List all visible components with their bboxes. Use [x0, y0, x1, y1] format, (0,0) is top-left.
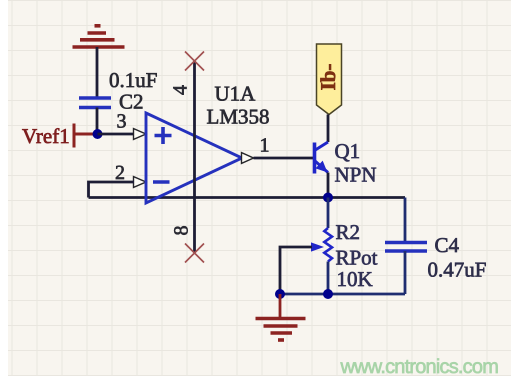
svg-text:0.1uF: 0.1uF [109, 68, 157, 92]
op-amp plus input [155, 127, 172, 144]
transistor Q1 [315, 142, 329, 174]
svg-text:www.cntronics.com: www.cntronics.com [340, 356, 499, 378]
wire C2 to node [96, 108, 99, 135]
output pin arrow [242, 153, 254, 164]
pin 2 arrow [134, 177, 147, 188]
node junction bottom R2 [323, 289, 333, 299]
power port Ib- flag [317, 44, 342, 115]
svg-text:C4: C4 [435, 233, 460, 257]
wire ground to C2 [96, 47, 99, 98]
svg-text:NPN: NPN [335, 163, 377, 187]
wire pin 1 to base [254, 157, 315, 160]
wiper arrow [311, 242, 324, 251]
no-connect X pin 4 [185, 52, 204, 71]
wire C4 top stem [404, 198, 407, 243]
port Vref1 tick [73, 124, 76, 148]
wire Vref1 (red) [74, 133, 97, 136]
svg-text:10K: 10K [337, 267, 373, 291]
capacitor C4 [385, 243, 427, 252]
op-amp minus input [153, 180, 170, 184]
node junction bottom left [275, 289, 285, 299]
no-connect X pin 8 [185, 244, 204, 263]
svg-text:1: 1 [260, 135, 270, 157]
svg-text:RPot: RPot [336, 246, 378, 270]
wire node to pin 3 [98, 133, 135, 136]
node junction at emitter [323, 193, 333, 203]
svg-text:LM358: LM358 [207, 105, 270, 129]
svg-text:Q1: Q1 [335, 139, 361, 163]
svg-text:U1A: U1A [215, 82, 257, 106]
op-amp U1A triangle [146, 113, 242, 203]
wire pin 2 loop [89, 182, 135, 198]
wire C4 bottom stem [404, 251, 407, 294]
svg-text:3: 3 [117, 111, 127, 133]
wire emitter down [327, 173, 330, 198]
wire bottom rail [280, 293, 405, 296]
wire flag to collector [327, 115, 330, 143]
potentiometer R2 zigzag [324, 228, 332, 262]
wire wiper [280, 247, 312, 294]
svg-text:8: 8 [171, 226, 193, 236]
svg-text:0.47uF: 0.47uF [428, 258, 487, 282]
transistor emitter arrow [316, 162, 326, 172]
svg-text:Vref1: Vref1 [22, 124, 70, 148]
svg-text:R2: R2 [336, 220, 361, 244]
node junction at C2/Vref1 [93, 129, 103, 139]
pin 3 arrow [134, 129, 147, 140]
ground (bottom earth symbol) [256, 319, 306, 341]
capacitor C2 [79, 98, 111, 108]
svg-text:4: 4 [170, 85, 192, 95]
wire node to R2 [327, 198, 330, 229]
wire to ground [279, 294, 282, 319]
wire R2 bottom [327, 262, 330, 295]
ground (top earth symbol) [73, 26, 125, 47]
svg-text:Ib-: Ib- [316, 64, 340, 91]
wire feedback net [89, 196, 406, 199]
pin 4 / pin 8 vertical line [193, 61, 196, 253]
